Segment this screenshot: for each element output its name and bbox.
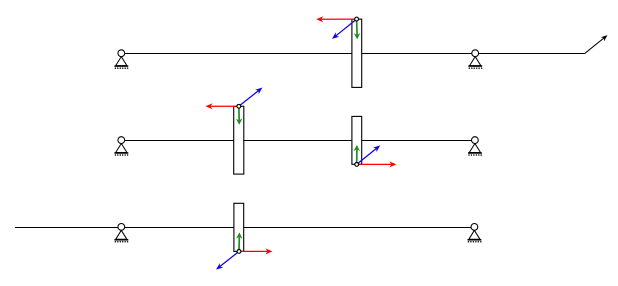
pin support F (beam 3 right): ground hatch dots: [468, 241, 482, 243]
link element L2 on beam 2 (left, tall): [234, 106, 244, 174]
pin support F (beam 3 right): hinge circle: [471, 224, 478, 231]
pin support B (beam 1 right): ground hatch bar: [468, 65, 482, 67]
triad T3 (bottom of L3): blue local z-axis arrow: [357, 145, 381, 164]
pin support B (beam 1 right): ground hatch dots: [469, 67, 483, 69]
pin support A (beam 1 left): ground hatch bar: [114, 65, 128, 67]
beam 3 (bottom span with left overhang): [15, 227, 475, 229]
pin support B (beam 1 right): hinge circle: [472, 50, 479, 57]
pin support D (beam 2 right): triangle: [469, 144, 480, 153]
triad T2 (top of L2): blue local z-axis arrow: [239, 88, 263, 107]
pin support C (beam 2 left): triangle: [116, 144, 127, 153]
pin support E (beam 3 left): hinge circle: [118, 224, 125, 231]
triad T3 (bottom of L3): red local x-axis arrow: [357, 161, 397, 167]
triad T4 (bottom of L4): red local x-axis arrow: [239, 248, 273, 254]
beam 1 (top span): [121, 53, 585, 55]
triad T1 (top of L1): blue local z-axis arrow: [332, 19, 357, 39]
beam 2 (middle span): [121, 140, 475, 142]
pin support E (beam 3 left): ground hatch bar: [114, 239, 128, 241]
triad T1 (top of L1): green local y-axis arrow: [354, 19, 360, 39]
pin support F (beam 3 right): triangle: [469, 230, 480, 239]
pin support B (beam 1 right): triangle: [470, 57, 481, 66]
triad T3 (bottom of L3): origin node circle: [355, 163, 359, 167]
link element L4 on beam 3: [234, 203, 244, 251]
pin support A (beam 1 left): triangle: [116, 57, 127, 66]
pin support A (beam 1 left): hinge circle: [118, 50, 125, 57]
triad T4 (bottom of L4): origin node circle: [237, 250, 241, 254]
link element L1 on beam 1: [352, 19, 362, 87]
triad T2 (top of L2): origin node circle: [237, 104, 241, 108]
pin support C (beam 2 left): ground hatch bar: [114, 152, 128, 154]
triad T2 (top of L2): red local x-axis arrow: [206, 103, 239, 109]
pin support C (beam 2 left): ground hatch dots: [115, 154, 129, 156]
triad T3 (bottom of L3): green local y-axis arrow: [354, 145, 360, 165]
pin support E (beam 3 left): triangle: [116, 230, 127, 239]
link element L3 on beam 2 (right, short): [352, 116, 362, 164]
triad T1 (top of L1): red local x-axis arrow: [316, 16, 356, 22]
triad T4 (bottom of L4): green local y-axis arrow: [236, 232, 242, 251]
triad T2 (top of L2): green local y-axis arrow: [236, 106, 242, 125]
pin support E (beam 3 left): ground hatch dots: [115, 241, 129, 243]
triad T1 (top of L1): origin node circle: [355, 17, 359, 21]
beam 1 free-end load arrow (up-right): [585, 35, 608, 53]
pin support D (beam 2 right): ground hatch bar: [468, 152, 482, 154]
triad T4 (bottom of L4): blue local z-axis arrow: [216, 251, 239, 269]
pin support F (beam 3 right): ground hatch bar: [468, 239, 482, 241]
pin support A (beam 1 left): ground hatch dots: [115, 67, 129, 69]
pin support C (beam 2 left): hinge circle: [118, 137, 125, 144]
pin support D (beam 2 right): ground hatch dots: [468, 154, 482, 156]
pin support D (beam 2 right): hinge circle: [472, 137, 479, 144]
